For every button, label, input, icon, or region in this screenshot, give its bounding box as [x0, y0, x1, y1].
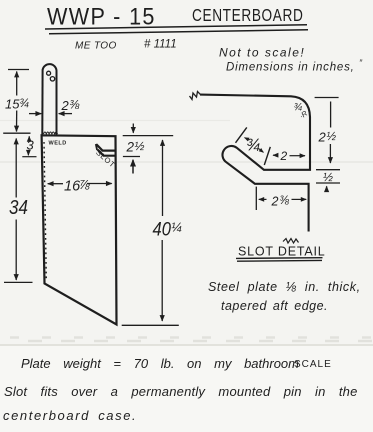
svg-text:SLOT DETAIL: SLOT DETAIL — [238, 245, 326, 259]
svg-text:SCALE: SCALE — [294, 359, 332, 370]
svg-text:tapered aft edge.: tapered aft edge. — [221, 299, 328, 313]
svg-text:Steel plate ⅛ in. thick,: Steel plate ⅛ in. thick, — [208, 280, 361, 294]
svg-text:⅜: ⅜ — [70, 98, 80, 112]
svg-text:Plate weight = 70 lb. on my ba: Plate weight = 70 lb. on my bathroom — [21, 356, 299, 371]
svg-text:½: ½ — [135, 139, 145, 153]
svg-text:⅞: ⅞ — [80, 178, 91, 192]
svg-text:WWP - 15: WWP - 15 — [47, 2, 156, 29]
svg-text:¼: ¼ — [171, 220, 182, 235]
svg-text:16: 16 — [64, 179, 81, 195]
svg-text:Not to scale!: Not to scale! — [219, 46, 305, 60]
svg-text:ME TOO: ME TOO — [75, 41, 117, 52]
svg-text:Slot fits over a permanently m: Slot fits over a permanently mounted pin… — [4, 384, 358, 399]
svg-text:# 1111: # 1111 — [144, 39, 177, 51]
svg-text:⅜: ⅜ — [280, 195, 290, 207]
svg-text:2: 2 — [61, 98, 70, 113]
svg-text:2: 2 — [126, 140, 135, 155]
svg-text:½: ½ — [323, 170, 333, 184]
svg-text:WELD: WELD — [49, 140, 67, 146]
svg-text:CENTERBOARD: CENTERBOARD — [192, 6, 303, 25]
svg-text:¾: ¾ — [246, 136, 260, 155]
svg-text:2: 2 — [271, 195, 279, 209]
svg-text:3: 3 — [27, 138, 35, 153]
svg-text:2: 2 — [318, 130, 327, 145]
svg-text:Dimensions in inches,: Dimensions in inches, — [226, 62, 355, 74]
svg-text:centerboard case.: centerboard case. — [3, 408, 137, 423]
svg-text:¾: ¾ — [19, 96, 29, 110]
svg-text:40: 40 — [153, 218, 171, 240]
svg-text:½: ½ — [327, 131, 337, 143]
svg-text:15: 15 — [5, 97, 20, 112]
svg-text:2: 2 — [280, 149, 288, 163]
svg-text:34: 34 — [9, 196, 28, 219]
